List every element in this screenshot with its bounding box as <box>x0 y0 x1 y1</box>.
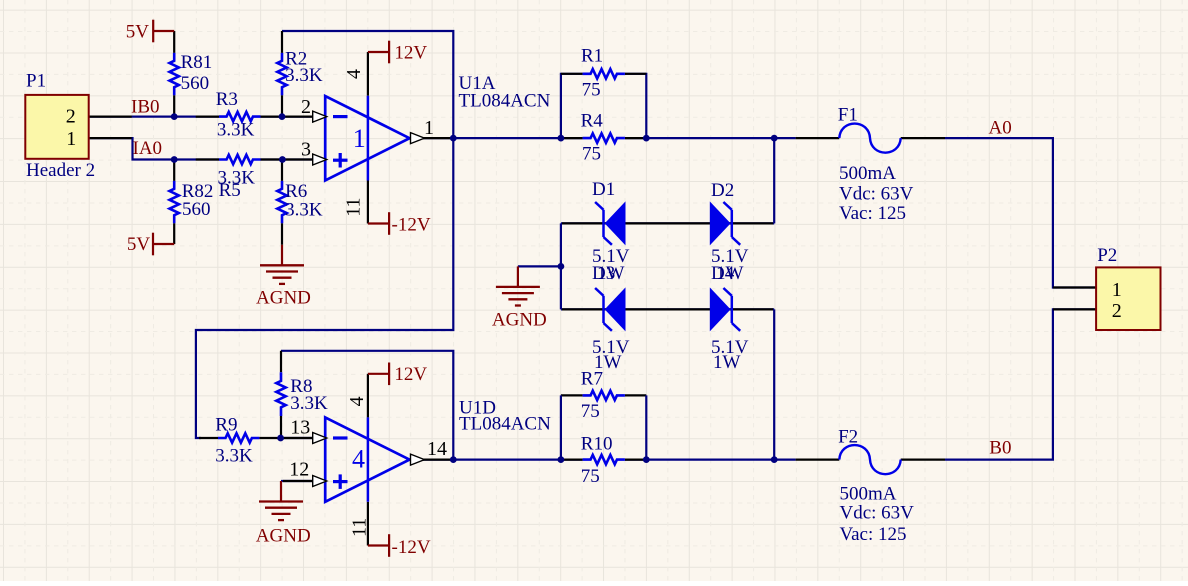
svg-text:F2: F2 <box>838 426 858 447</box>
svg-text:1W: 1W <box>713 352 741 373</box>
svg-text:14: 14 <box>427 438 447 460</box>
svg-text:IA0: IA0 <box>133 138 163 159</box>
svg-text:13: 13 <box>290 417 310 439</box>
svg-text:Header 2: Header 2 <box>26 160 95 181</box>
svg-text:3.3K: 3.3K <box>217 119 255 140</box>
svg-text:11: 11 <box>342 198 364 217</box>
svg-text:-12V: -12V <box>392 537 431 558</box>
svg-text:R4: R4 <box>581 110 604 131</box>
svg-text:R3: R3 <box>216 89 238 110</box>
svg-text:3.3K: 3.3K <box>285 65 323 86</box>
svg-text:11: 11 <box>348 518 370 537</box>
svg-text:560: 560 <box>182 199 211 220</box>
svg-text:R81: R81 <box>181 52 213 73</box>
svg-text:500mA: 500mA <box>840 483 897 504</box>
svg-text:A0: A0 <box>989 118 1012 139</box>
svg-text:2: 2 <box>301 96 311 118</box>
svg-text:D3: D3 <box>592 263 615 284</box>
svg-text:R10: R10 <box>581 433 613 454</box>
svg-text:560: 560 <box>181 73 210 94</box>
svg-text:3.3K: 3.3K <box>290 393 328 414</box>
svg-text:Vdc: 63V: Vdc: 63V <box>839 184 914 205</box>
svg-text:-12V: -12V <box>392 215 431 236</box>
svg-text:3.3K: 3.3K <box>285 199 323 220</box>
svg-text:AGND: AGND <box>256 288 311 309</box>
svg-text:Vac: 125: Vac: 125 <box>840 524 907 545</box>
svg-text:5V: 5V <box>126 22 150 43</box>
svg-text:1: 1 <box>66 128 76 150</box>
svg-text:4: 4 <box>352 445 365 474</box>
svg-text:TL084ACN: TL084ACN <box>459 414 551 435</box>
svg-text:TL084ACN: TL084ACN <box>459 90 551 111</box>
svg-text:AGND: AGND <box>256 526 311 547</box>
svg-text:3: 3 <box>301 139 311 161</box>
svg-text:B0: B0 <box>989 438 1011 459</box>
svg-text:12: 12 <box>289 459 309 481</box>
svg-text:2: 2 <box>66 106 76 128</box>
svg-text:1: 1 <box>1112 279 1122 301</box>
svg-text:1: 1 <box>424 117 434 139</box>
svg-text:P1: P1 <box>26 71 46 92</box>
svg-text:R5: R5 <box>219 180 241 201</box>
svg-text:12V: 12V <box>394 43 427 64</box>
svg-text:75: 75 <box>582 144 601 165</box>
svg-text:IB0: IB0 <box>131 97 160 118</box>
svg-text:R1: R1 <box>581 46 603 67</box>
svg-text:5V: 5V <box>127 234 150 255</box>
svg-text:4: 4 <box>343 69 365 79</box>
svg-text:Vdc: 63V: Vdc: 63V <box>840 502 915 523</box>
svg-text:75: 75 <box>581 401 600 422</box>
svg-text:D2: D2 <box>711 180 734 201</box>
svg-text:R9: R9 <box>215 415 237 436</box>
svg-text:4: 4 <box>346 396 368 406</box>
svg-text:3.3K: 3.3K <box>215 446 253 467</box>
svg-text:P2: P2 <box>1097 245 1117 266</box>
svg-text:75: 75 <box>582 80 601 101</box>
svg-text:1: 1 <box>353 124 366 153</box>
svg-text:75: 75 <box>581 466 600 487</box>
svg-text:2: 2 <box>1112 300 1122 322</box>
svg-text:R7: R7 <box>581 369 603 390</box>
svg-text:D1: D1 <box>592 179 615 200</box>
svg-text:D4: D4 <box>711 263 735 284</box>
svg-text:F1: F1 <box>838 105 858 126</box>
svg-text:Vac: 125: Vac: 125 <box>839 203 906 224</box>
svg-text:AGND: AGND <box>492 310 547 331</box>
svg-text:12V: 12V <box>394 364 427 385</box>
svg-text:500mA: 500mA <box>839 163 896 184</box>
